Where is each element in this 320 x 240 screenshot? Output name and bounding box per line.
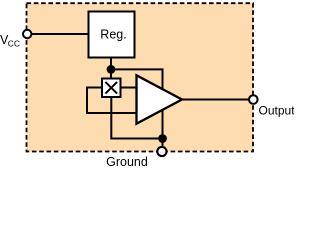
wire VCC pin to Reg. input [27, 33, 89, 35]
svg-text:Ground: Ground [106, 155, 148, 169]
op-amp A1 [137, 75, 183, 123]
wire hall element right output to amp upper input [121, 87, 137, 89]
ground node junction [158, 134, 167, 143]
label VCC [0, 33, 20, 48]
wire ground node to ground pin [162, 139, 164, 148]
wire Reg. output down to node A [110, 58, 112, 70]
svg-text:CC: CC [8, 39, 20, 49]
pin Output terminal [249, 95, 258, 104]
IC package boundary (dashed) [27, 3, 254, 151]
wire hall element left output loop to amp lower input [87, 88, 137, 114]
pin VCC terminal [23, 30, 31, 38]
wire hall element bottom to ground node [111, 97, 162, 139]
wire node A to amp supply (passes behind amplifier) [111, 69, 163, 138]
wire amp output to Output pin [182, 99, 249, 101]
regulator block Reg. [89, 12, 135, 58]
pin Ground terminal [157, 147, 166, 156]
hall element X1 [102, 79, 121, 98]
svg-text:Output: Output [259, 103, 295, 117]
svg-text:Reg.: Reg. [100, 27, 126, 41]
wire node A down to hall element top [110, 69, 112, 79]
node A junction [107, 65, 116, 74]
